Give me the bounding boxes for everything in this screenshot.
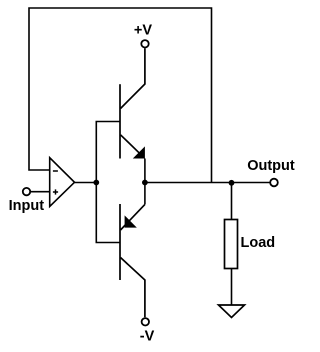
op-amp U1 <box>50 158 75 207</box>
wire input <box>30 191 50 193</box>
wire op-amp output <box>75 182 97 184</box>
wire output horizontal <box>145 182 270 184</box>
transistor Q2 (PNP) <box>120 204 145 317</box>
resistor Load <box>225 220 238 269</box>
svg-text:Input: Input <box>9 198 45 214</box>
wire load bottom <box>231 269 233 306</box>
svg-text:Load: Load <box>241 235 276 251</box>
svg-text:+V: +V <box>134 23 152 39</box>
svg-text:-V: -V <box>140 328 155 344</box>
node junction output rail <box>142 180 148 186</box>
ground <box>219 305 245 318</box>
node +V terminal <box>141 40 148 47</box>
wire load top <box>231 183 233 220</box>
node -V terminal <box>142 318 149 325</box>
wire base bus <box>96 122 120 243</box>
svg-text:Output: Output <box>247 158 295 174</box>
node input terminal <box>23 188 30 195</box>
wire output rail <box>144 159 146 205</box>
transistor Q1 (NPN) <box>120 48 145 158</box>
node junction load tap <box>229 180 235 186</box>
node junction op-amp output <box>93 180 99 186</box>
wire feedback loop <box>29 8 212 183</box>
node output terminal <box>270 179 278 187</box>
